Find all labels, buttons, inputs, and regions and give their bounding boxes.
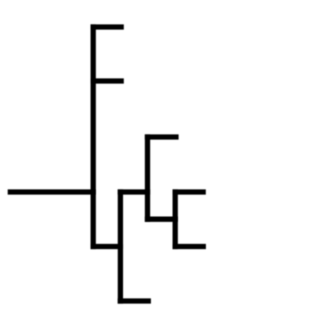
wire branch to right cluster <box>145 217 178 222</box>
node right vertical connector <box>173 189 178 249</box>
wire leaf 2 branch <box>91 78 124 83</box>
node lower vertical connector <box>118 189 123 303</box>
wire branch to middle cluster <box>118 189 150 194</box>
node middle vertical connector <box>145 134 150 222</box>
wire leaf 4 branch <box>173 189 206 194</box>
wire branch to lower cluster <box>91 244 124 249</box>
node main vertical connector <box>91 24 96 249</box>
wire root branch <box>8 189 96 194</box>
wire leaf 5 branch <box>173 244 206 249</box>
wire leaf 3 branch <box>145 134 179 139</box>
wire leaf 6 branch <box>118 298 151 303</box>
wire leaf 1 branch <box>91 24 124 29</box>
